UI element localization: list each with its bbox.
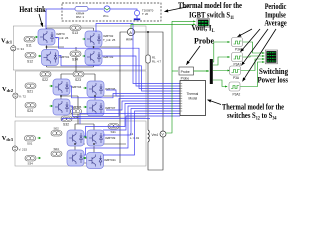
IGBT switch S32 <box>84 136 88 139</box>
periodic impulse average block P3A3 <box>230 66 241 75</box>
svg-text:RM: 1: RM: 1 <box>76 15 84 19</box>
svg-text:V: 34: V: 34 <box>17 47 24 51</box>
wire: cascade link bridge2-bridge3 <box>77 96 79 124</box>
pulse generator S25 <box>71 109 82 115</box>
pulse generator S11 <box>24 37 35 43</box>
svg-text:T: 26: T: 26 <box>142 12 149 16</box>
IGBT switch S22 <box>53 99 70 115</box>
svg-text:Heat sink: Heat sink <box>19 5 46 14</box>
svg-text:S12: S12 <box>27 60 33 64</box>
voltage source V dc1 <box>11 46 16 51</box>
wire: load return <box>148 137 163 170</box>
wire: thermal line S33 to model <box>84 106 180 155</box>
svg-text:T_init: 26: T_init: 26 <box>56 36 69 40</box>
arrow: average pointer to P3A1 <box>241 29 261 52</box>
wire: thermal line S34 to model <box>103 111 180 155</box>
svg-text:S21: S21 <box>27 90 33 94</box>
pulse generator S12 <box>25 53 36 59</box>
inductor L1 <box>148 130 149 142</box>
wire: thermal line S22 to model <box>70 99 181 117</box>
svg-text:IGBT04: IGBT04 <box>71 85 82 89</box>
wire: bridge3 internal rails <box>75 124 126 163</box>
wire: thermal line S12 to model <box>59 56 181 92</box>
arrow: probe pointer <box>186 46 200 65</box>
svg-text:IGBT switch S11: IGBT switch S11 <box>189 11 234 21</box>
svg-text:P3A2: P3A2 <box>233 93 241 97</box>
thermal model dashed box for switch S11 <box>62 3 161 21</box>
pulse generator S04 <box>51 151 62 157</box>
probe block <box>179 67 194 75</box>
node: load branch junction <box>147 31 149 33</box>
wire: load resistor rail <box>147 32 149 55</box>
wire: P3A3 to power-loss scope <box>241 59 265 71</box>
wire: thermal line S31 to model <box>84 104 180 137</box>
svg-text:Probe: Probe <box>181 70 190 74</box>
svg-text:S31: S31 <box>111 130 117 134</box>
Thermal Model subsystem block <box>180 81 206 116</box>
svg-text:S22: S22 <box>42 78 48 82</box>
scope switching power loss <box>265 50 277 64</box>
wire: thermal bus lower lines <box>62 114 180 131</box>
svg-text:S23: S23 <box>75 78 81 82</box>
pulse generator S33 <box>25 156 36 162</box>
svg-text:A: A <box>129 30 132 35</box>
IGBT switch S13 <box>85 31 102 47</box>
wire: thermal line S32 to model <box>103 109 180 136</box>
arrow: average pointer to P3A3 <box>242 29 269 65</box>
wire: heat sink thermal line <box>46 9 75 29</box>
svg-text:S24: S24 <box>27 109 33 113</box>
scope Vout IL <box>197 19 210 28</box>
svg-text:T_init: 25: T_init: 25 <box>103 38 116 42</box>
wire: mux to PIA4 <box>213 80 227 87</box>
IGBT switch S12 <box>42 50 59 66</box>
pulse generator S31 <box>25 136 36 142</box>
H-bridge subsystem box 3 <box>15 121 146 166</box>
wire: Am4 signal to scope <box>131 24 195 28</box>
wire: thermal line S13 to model <box>96 24 180 84</box>
periodic impulse average block P3A2 <box>229 82 240 91</box>
wire: P3A2 to power-loss scope <box>240 62 264 87</box>
svg-text:Probe: Probe <box>194 37 214 46</box>
wire: bridge output rail to Am4 <box>120 32 127 163</box>
IGBT switch S21 <box>53 79 70 95</box>
arrow: average pointer to P3A2 <box>243 29 277 81</box>
svg-text:S04: S04 <box>54 147 60 151</box>
pulse generator S34 <box>108 124 119 130</box>
svg-text:Switching: Switching <box>259 67 288 76</box>
wire: cascade link bridge1-bridge2 <box>75 47 77 74</box>
pulse generator S14 <box>70 51 81 57</box>
wire: bridge2 internal rails <box>61 74 124 114</box>
svg-text:S32: S32 <box>63 123 69 127</box>
wire: mux to PIA1 <box>213 42 230 62</box>
current meter Am4 <box>127 28 134 35</box>
svg-text:Probe: Probe <box>181 77 190 81</box>
wire: thermal line S23 to model <box>106 90 180 96</box>
wire: R1 to L1 <box>147 63 149 130</box>
svg-text:S13: S13 <box>72 31 78 35</box>
pulse generator S21 <box>25 83 36 89</box>
pulse generator S02 <box>51 131 62 137</box>
svg-text:S14: S14 <box>72 58 78 62</box>
svg-text:Wm: Wm <box>103 14 109 18</box>
arrow: average pointer to P3A <box>238 29 253 37</box>
H-bridge subsystem box 2 <box>15 71 146 117</box>
periodic impulse average block P3A <box>232 38 243 47</box>
arrow: thermal model S12-S34 pointer <box>208 100 222 105</box>
svg-text:IGBT07: IGBT07 <box>105 106 116 110</box>
wire: thermal line S11 to model <box>55 38 180 89</box>
svg-text:S34: S34 <box>28 162 34 166</box>
svg-text:Vm4: Vm4 <box>152 133 159 137</box>
wire: P3A to power-loss scope <box>243 42 265 53</box>
svg-text:S11: S11 <box>26 44 32 48</box>
IGBT switch S34 <box>83 157 87 160</box>
voltage source V dc3 <box>12 146 17 151</box>
pulse generator S32 <box>61 116 72 122</box>
wire: mux to PIA2 <box>213 57 230 65</box>
svg-text:Am4: Am4 <box>126 38 133 42</box>
wire: KRM4 to Wm <box>88 8 103 10</box>
arrow: heat sink pointer <box>39 14 43 27</box>
svg-text:P3A: P3A <box>233 76 240 80</box>
wire: thermal line S21 to model <box>70 86 181 98</box>
arrow: thermal model S11 pointer <box>165 7 190 12</box>
svg-text:Thermal model for the: Thermal model for the <box>178 1 242 10</box>
svg-text:switches S12 to S34: switches S12 to S34 <box>227 111 277 121</box>
svg-text:Thermal: Thermal <box>187 92 199 96</box>
svg-text:Average: Average <box>264 19 287 28</box>
svg-text:S01: S01 <box>27 142 33 146</box>
svg-text:IGBT03: IGBT03 <box>103 55 114 59</box>
svg-text:V: 72: V: 72 <box>19 95 26 99</box>
wire: thermal line S14 to model <box>102 56 180 86</box>
svg-text:Model: Model <box>189 97 198 101</box>
temperature source T2IGBT0 <box>134 10 139 15</box>
IGBT switch S11 <box>38 29 55 45</box>
resistor R1 <box>146 55 150 63</box>
svg-text:V: 215: V: 215 <box>19 147 28 151</box>
pulse generator S22 <box>40 72 51 78</box>
svg-text:IGBT09: IGBT09 <box>105 136 116 140</box>
pulse generator S24 <box>25 103 36 109</box>
wire: probe output to mux <box>194 70 209 72</box>
svg-text:Vout, IL: Vout, IL <box>192 24 215 34</box>
IGBT switch S33 <box>67 150 84 166</box>
wire: mux to PIA3 <box>213 70 230 72</box>
thermal ground bar <box>134 18 140 20</box>
IGBT switch S23 <box>84 87 88 90</box>
heat-sink Cauer network block KRM4 <box>75 7 88 12</box>
H-bridge subsystem box 1 <box>13 26 146 70</box>
wire: thermal line S24 to model <box>106 101 180 110</box>
svg-text:S02: S02 <box>54 127 60 131</box>
wire: probe input <box>172 70 178 72</box>
svg-text:RL: 4.7: RL: 4.7 <box>152 60 161 64</box>
svg-text:IGBT011: IGBT011 <box>104 158 116 162</box>
svg-text:IGBT06: IGBT06 <box>105 87 116 91</box>
pulse generator S13 <box>70 25 81 31</box>
voltage source V dc2 <box>13 93 18 98</box>
wire: Wm to temperature source <box>110 9 137 10</box>
IGBT switch S24 <box>84 106 88 109</box>
wire: Am4 to load node <box>135 32 163 131</box>
heat flow meter Wm <box>104 6 110 12</box>
wire: Vm4 signal to scope <box>166 21 195 133</box>
wire: bridge1 internal rails <box>47 28 127 163</box>
wire: P3A1 to power-loss scope <box>243 56 265 57</box>
voltage meter Vm4 <box>160 131 166 137</box>
mux bar <box>210 59 213 84</box>
pulse generator S23 <box>73 72 84 78</box>
IGBT switch S14 <box>85 49 102 65</box>
periodic impulse average block P3A1 <box>232 53 243 62</box>
IGBT switch S31 <box>67 130 84 146</box>
node: bridge1 output junctions <box>46 46 96 145</box>
svg-text:Power loss: Power loss <box>258 76 289 85</box>
